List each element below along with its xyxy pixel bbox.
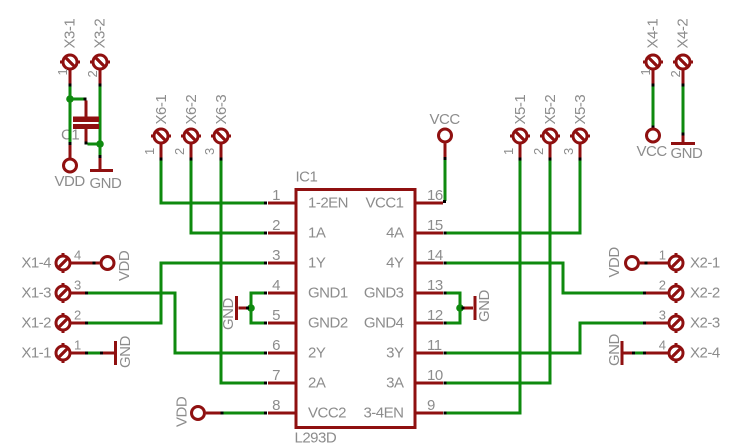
svg-text:3: 3 xyxy=(202,148,217,155)
L293D value label xyxy=(295,430,337,447)
connector X2-3 xyxy=(654,313,684,333)
joint pin6 xyxy=(264,352,267,355)
label GND X1-1 rot xyxy=(117,336,134,369)
svg-text:1Y: 1Y xyxy=(308,255,326,272)
wire C1 bottom lead net xyxy=(88,143,99,146)
junction node GND right xyxy=(456,304,464,312)
label X3-1 xyxy=(62,19,79,49)
joint X6-1 xyxy=(160,158,163,161)
joint VDD stub xyxy=(69,142,72,145)
svg-text:14: 14 xyxy=(427,247,443,264)
IC1 pin 14 stub xyxy=(414,262,443,265)
connector X5-1 xyxy=(510,129,530,158)
VDD symbol pin xyxy=(69,145,72,159)
connector X5-2 xyxy=(540,129,560,158)
svg-text:2: 2 xyxy=(272,217,280,234)
svg-text:5: 5 xyxy=(272,307,280,324)
wire X1-1 to GND xyxy=(88,352,100,355)
joint X2-3 xyxy=(643,322,646,325)
supply symbol VDD left xyxy=(101,257,114,270)
IC1 pin 16 stub xyxy=(414,202,443,205)
joint X1-1 xyxy=(85,352,88,355)
svg-text:6: 6 xyxy=(272,337,280,354)
label X5-2 xyxy=(542,95,559,125)
svg-text:VDD: VDD xyxy=(55,173,86,190)
svg-text:VCC1: VCC1 xyxy=(365,195,403,212)
joint pin11 xyxy=(444,352,447,355)
svg-text:X2-1: X2-1 xyxy=(690,255,720,272)
joint X2-4 xyxy=(643,352,646,355)
connector X1-1 xyxy=(56,343,86,363)
svg-text:3A: 3A xyxy=(386,375,404,392)
ground symbol GND pins1312 xyxy=(474,296,477,320)
label X6-1 xyxy=(153,95,170,125)
supply symbol VDD X2 xyxy=(626,257,639,270)
X2-3 pin stub xyxy=(646,322,669,325)
svg-text:2A: 2A xyxy=(308,375,326,392)
svg-text:8: 8 xyxy=(272,397,280,414)
svg-text:3: 3 xyxy=(272,247,280,264)
wire X6-3 to IC pin 7 xyxy=(221,161,265,384)
joint X2-2 xyxy=(643,292,646,295)
svg-text:X1-3: X1-3 xyxy=(21,285,51,302)
joint X4-1 xyxy=(652,83,655,86)
connector X4-1 xyxy=(643,55,663,84)
pin name 1Y xyxy=(308,255,326,272)
svg-text:X6-3: X6-3 xyxy=(213,95,230,125)
svg-text:2: 2 xyxy=(74,308,81,323)
joint at IC pin 15 xyxy=(444,232,447,235)
svg-text:2: 2 xyxy=(172,148,187,155)
X2-2 pin stub xyxy=(646,292,669,295)
pin name GND4 xyxy=(364,315,404,332)
label C1 xyxy=(61,127,79,144)
pin number 3 of X2-3 xyxy=(659,308,666,323)
wire IC pins 13-12 to GND xyxy=(446,293,460,323)
label X2-4 xyxy=(690,345,720,362)
svg-text:GND: GND xyxy=(220,298,237,331)
joint at IC pin 9 xyxy=(444,412,447,415)
wire X4-1 to VCC xyxy=(652,86,655,125)
svg-text:X5-2: X5-2 xyxy=(542,95,559,125)
label GND pins45 rot xyxy=(220,298,237,331)
joint GND right stub xyxy=(682,133,685,136)
pin number 1 of X2-1 xyxy=(659,248,666,263)
pin number 10 xyxy=(427,367,443,384)
svg-text:2: 2 xyxy=(659,278,666,293)
pin name 3-4EN xyxy=(363,405,403,422)
pin number 1 xyxy=(272,187,280,204)
pin number 5 xyxy=(272,307,280,324)
svg-text:1-2EN: 1-2EN xyxy=(308,195,348,212)
svg-text:GND: GND xyxy=(606,334,623,367)
joint at IC pin row 383 xyxy=(264,382,267,385)
svg-text:3: 3 xyxy=(561,148,576,155)
pin number 1 of X5-1 xyxy=(501,148,516,155)
IC1 pin 15 stub xyxy=(414,232,443,235)
svg-text:1A: 1A xyxy=(308,225,326,242)
connector X5-3 xyxy=(570,129,590,158)
svg-text:X2-4: X2-4 xyxy=(690,345,720,362)
joint pin8 xyxy=(264,412,267,415)
pin name 2A xyxy=(308,375,326,392)
IC1 name label xyxy=(296,169,318,186)
connector X1-3 xyxy=(56,283,86,303)
IC1 pin 13 stub xyxy=(414,292,443,295)
wire VDD to IC pin 8 xyxy=(224,412,266,415)
connector X6-2 xyxy=(181,129,201,158)
label VDD X2 rot xyxy=(606,247,623,278)
pin number 1 of X3-1 xyxy=(55,69,70,76)
svg-text:X2-2: X2-2 xyxy=(690,285,720,302)
supply symbol VDD pin8 xyxy=(192,407,205,420)
label X6-3 xyxy=(213,95,230,125)
ground symbol pin right xyxy=(682,136,685,142)
joint GND left stem xyxy=(246,307,249,310)
ground symbol GND xyxy=(90,169,113,172)
label X2-1 xyxy=(690,255,720,272)
pin name 2Y xyxy=(308,345,326,362)
connector X3-1 xyxy=(60,55,80,84)
joint pin5 xyxy=(264,322,267,325)
pin number 3 of X5-3 xyxy=(561,148,576,155)
svg-text:2: 2 xyxy=(531,148,546,155)
svg-text:GND: GND xyxy=(476,290,493,323)
svg-text:1: 1 xyxy=(501,148,516,155)
svg-text:15: 15 xyxy=(427,217,443,234)
joint X3-1 xyxy=(69,83,72,86)
joint X6-3 xyxy=(220,158,223,161)
pin number 8 xyxy=(272,397,280,414)
pin number 15 xyxy=(427,217,443,234)
svg-text:X2-3: X2-3 xyxy=(690,315,720,332)
joint pin16 xyxy=(443,200,446,203)
svg-text:VDD: VDD xyxy=(116,250,133,281)
svg-text:GND3: GND3 xyxy=(364,285,404,302)
joint X2-1 VDD xyxy=(645,262,648,265)
wire X5-3 to IC pin 15 xyxy=(446,161,580,234)
label X3-2 xyxy=(92,19,109,49)
label X1-4 xyxy=(21,255,51,272)
label VCC xyxy=(637,143,668,160)
label X1-1 xyxy=(21,345,51,362)
svg-text:X1-4: X1-4 xyxy=(21,255,51,272)
joint X3-2 xyxy=(99,83,102,86)
joint pin13 xyxy=(444,292,447,295)
wire X1-3 to IC pin 6 xyxy=(88,293,265,353)
svg-text:3-4EN: 3-4EN xyxy=(363,405,403,422)
label X4-2 xyxy=(675,19,692,49)
svg-text:GND: GND xyxy=(671,145,704,162)
svg-text:X4-2: X4-2 xyxy=(675,19,692,49)
wire VCC to IC pin 16 xyxy=(444,160,447,201)
IC1 pin 8 stub xyxy=(268,412,297,415)
label X1-3 xyxy=(21,285,51,302)
svg-text:GND: GND xyxy=(90,175,123,192)
svg-text:1: 1 xyxy=(638,69,653,76)
ground stem right xyxy=(465,307,474,310)
wire X3-2 to GND node xyxy=(99,86,102,156)
svg-text:X4-1: X4-1 xyxy=(645,19,662,49)
svg-text:X3-2: X3-2 xyxy=(92,19,109,49)
pin name 1-2EN xyxy=(308,195,348,212)
pin number 2 of X6-2 xyxy=(172,148,187,155)
VDD pin8 stub xyxy=(206,412,221,415)
pin name VCC1 xyxy=(365,195,403,212)
X2-4 pin stub xyxy=(646,352,669,355)
IC1 pin 12 stub xyxy=(414,322,443,325)
ground stem X2-4 xyxy=(624,352,633,355)
pin number 3 of X6-3 xyxy=(202,148,217,155)
pin number 2 of X4-2 xyxy=(668,71,683,78)
pin number 1 of X4-1 xyxy=(638,69,653,76)
pin number 4 of X1-4 xyxy=(74,248,81,263)
svg-text:L293D: L293D xyxy=(295,430,337,447)
connector X3-2 xyxy=(90,55,110,84)
svg-text:GND: GND xyxy=(117,336,134,369)
pin number 4 of X2-4 xyxy=(659,338,666,353)
label X5-1 xyxy=(512,95,529,125)
joint X2-4 stem xyxy=(632,352,635,355)
pin number 6 xyxy=(272,337,280,354)
label GND pins1312 rot xyxy=(476,290,493,323)
svg-text:VDD: VDD xyxy=(174,396,191,427)
svg-text:4A: 4A xyxy=(386,225,404,242)
label VCC top xyxy=(430,111,461,128)
svg-text:4: 4 xyxy=(272,277,280,294)
joint pin4 xyxy=(264,292,267,295)
pin number 16 xyxy=(427,187,443,204)
pin number 3 of X1-3 xyxy=(74,278,81,293)
wire X2-1 to VDD xyxy=(640,262,664,265)
joint X6-2 xyxy=(190,158,193,161)
joint X5-1 xyxy=(519,158,522,161)
IC1 pin 11 stub xyxy=(414,352,443,355)
label X4-1 xyxy=(645,19,662,49)
capacitor C1 xyxy=(73,101,99,143)
ground stem X1-1 xyxy=(103,352,115,355)
svg-text:X6-2: X6-2 xyxy=(183,95,200,125)
svg-text:IC1: IC1 xyxy=(296,169,318,186)
svg-text:1: 1 xyxy=(272,187,280,204)
wire C1 top lead net xyxy=(72,98,85,101)
pin name GND1 xyxy=(308,285,348,302)
pin number 11 xyxy=(427,337,442,354)
joint GND right stem xyxy=(462,307,465,310)
joint X1-2 xyxy=(85,322,88,325)
svg-text:X1-2: X1-2 xyxy=(21,315,51,332)
pin number 13 xyxy=(427,277,443,294)
svg-text:16: 16 xyxy=(427,187,443,204)
ground symbol GND X2-4 xyxy=(621,341,624,365)
joint X1-3 xyxy=(85,292,88,295)
pin number 3 xyxy=(272,247,280,264)
pin number 2 of X5-2 xyxy=(531,148,546,155)
connector X1-2 xyxy=(56,313,86,333)
IC1 pin 6 stub xyxy=(268,352,297,355)
pin number 7 xyxy=(272,367,280,384)
pin number 14 xyxy=(427,247,443,264)
wire X2-4 to GND xyxy=(635,352,643,355)
connector X2-2 xyxy=(654,283,684,303)
junction node GND left xyxy=(247,304,255,312)
pin number 4 xyxy=(272,277,280,294)
IC1 pin 10 stub xyxy=(414,382,443,385)
pin name GND2 xyxy=(308,315,348,332)
wire X5-1 to IC pin 9 xyxy=(446,161,520,414)
pin number 12 xyxy=(427,307,443,324)
svg-text:X5-3: X5-3 xyxy=(572,95,589,125)
ground stem left xyxy=(239,307,247,310)
wire X1-2 to IC pin 3 xyxy=(88,263,265,323)
supply symbol VCC top xyxy=(439,129,452,142)
pin number 2 of X3-2 xyxy=(85,71,100,78)
joint at IC pin row 203 xyxy=(264,202,267,205)
svg-text:9: 9 xyxy=(427,397,435,414)
joint VCC stub xyxy=(652,126,655,129)
joint C1 bottom xyxy=(85,142,88,145)
IC1 pin 9 stub xyxy=(414,412,443,415)
label X5-3 xyxy=(572,95,589,125)
svg-text:3: 3 xyxy=(659,308,666,323)
IC1 pin 4 stub xyxy=(268,292,297,295)
pin name VCC2 xyxy=(308,405,346,422)
wire IC pin 14 to X2-2 xyxy=(446,263,643,293)
connector X4-2 xyxy=(673,55,693,84)
ground symbol GND X1-1 xyxy=(114,341,117,365)
joint VCC top xyxy=(444,157,447,160)
joint pin3 xyxy=(264,262,267,265)
svg-text:4: 4 xyxy=(659,338,666,353)
IC1 pin 7 stub xyxy=(268,382,297,385)
svg-text:4Y: 4Y xyxy=(386,255,404,272)
label GND right xyxy=(671,145,704,162)
wire X3-1 to VDD node xyxy=(69,86,72,142)
svg-text:VDD: VDD xyxy=(606,247,623,278)
IC1 pin 2 stub xyxy=(268,232,297,235)
svg-text:12: 12 xyxy=(427,307,443,324)
pin name 4A xyxy=(386,225,404,242)
ground symbol GND pins45 xyxy=(235,296,238,320)
svg-text:3: 3 xyxy=(74,278,81,293)
joint pin12 xyxy=(444,322,447,325)
joint GND stub xyxy=(99,155,102,158)
svg-text:1: 1 xyxy=(142,148,157,155)
supply symbol VCC right xyxy=(647,129,660,142)
VCC pin stub xyxy=(444,144,447,158)
wire IC pins 4-5 to GND xyxy=(251,293,265,323)
label VDD left rot xyxy=(116,250,133,281)
svg-text:13: 13 xyxy=(427,277,443,294)
svg-text:1: 1 xyxy=(74,338,81,353)
label VDD pin8 rot xyxy=(174,396,191,427)
svg-text:10: 10 xyxy=(427,367,443,384)
wire X6-1 to IC pin 1 xyxy=(161,161,265,204)
svg-text:X6-1: X6-1 xyxy=(153,95,170,125)
label GND xyxy=(90,175,123,192)
svg-text:7: 7 xyxy=(272,367,280,384)
junction node GND/C1 xyxy=(96,140,104,148)
svg-text:VCC: VCC xyxy=(430,111,461,128)
pin name GND3 xyxy=(364,285,404,302)
IC U1 L293D body xyxy=(296,190,415,428)
supply symbol VDD xyxy=(64,159,77,172)
pin number 2 of X1-2 xyxy=(74,308,81,323)
joint at IC pin 10 xyxy=(444,382,447,385)
svg-text:GND2: GND2 xyxy=(308,315,348,332)
pin name 3A xyxy=(386,375,404,392)
svg-text:1: 1 xyxy=(659,248,666,263)
ground symbol GND right xyxy=(671,142,695,145)
svg-text:4: 4 xyxy=(74,248,81,263)
svg-text:1: 1 xyxy=(55,69,70,76)
label X2-2 xyxy=(690,285,720,302)
svg-text:X1-1: X1-1 xyxy=(21,345,51,362)
connector X2-4 xyxy=(654,343,684,363)
pin number 2 xyxy=(272,217,280,234)
connector X1-4 xyxy=(56,253,86,273)
svg-text:VCC2: VCC2 xyxy=(308,405,346,422)
wire X5-2 to IC pin 10 xyxy=(446,161,550,384)
label X1-2 xyxy=(21,315,51,332)
wire X6-2 to IC pin 2 xyxy=(191,161,265,234)
svg-text:GND1: GND1 xyxy=(308,285,348,302)
svg-text:2Y: 2Y xyxy=(308,345,326,362)
label X2-3 xyxy=(690,315,720,332)
IC1 pin 5 stub xyxy=(268,322,297,325)
IC1 pin 1 stub xyxy=(268,202,297,205)
svg-text:2: 2 xyxy=(668,71,683,78)
IC1 pin 3 stub xyxy=(268,262,297,265)
wire X4-2 to GND xyxy=(682,86,685,133)
connector X6-1 xyxy=(151,129,171,158)
wire X1-4 to VDD xyxy=(76,262,100,265)
svg-text:2: 2 xyxy=(85,71,100,78)
connector X2-1 xyxy=(654,253,684,273)
joint X4-2 xyxy=(682,83,685,86)
svg-text:X5-1: X5-1 xyxy=(512,95,529,125)
joint C1 top xyxy=(84,98,87,101)
joint X1-1 GND stem xyxy=(100,352,103,355)
joint pin14 xyxy=(444,262,447,265)
label GND X2-4 rot xyxy=(606,334,623,367)
pin number 1 of X1-1 xyxy=(74,338,81,353)
joint X1-4 VDD xyxy=(93,262,96,265)
wire IC pin 11 to X2-3 xyxy=(446,323,643,353)
joint X5-2 xyxy=(549,158,552,161)
label VDD xyxy=(55,173,86,190)
svg-text:VCC: VCC xyxy=(637,143,668,160)
pin name 4Y xyxy=(386,255,404,272)
svg-text:11: 11 xyxy=(427,337,442,354)
pin number 9 xyxy=(427,397,435,414)
svg-text:GND4: GND4 xyxy=(364,315,404,332)
joint at IC pin row 233 xyxy=(264,232,267,235)
pin number 1 of X6-1 xyxy=(142,148,157,155)
pin name 1A xyxy=(308,225,326,242)
svg-text:X3-1: X3-1 xyxy=(62,19,79,49)
joint X5-3 xyxy=(579,158,582,161)
joint VDD pin8 xyxy=(221,412,224,415)
svg-text:3Y: 3Y xyxy=(386,345,404,362)
label X6-2 xyxy=(183,95,200,125)
ground symbol pin xyxy=(99,158,102,170)
junction node VDD/C1 xyxy=(66,95,74,103)
pin number 2 of X2-2 xyxy=(659,278,666,293)
connector X6-3 xyxy=(211,129,231,158)
pin name 3Y xyxy=(386,345,404,362)
